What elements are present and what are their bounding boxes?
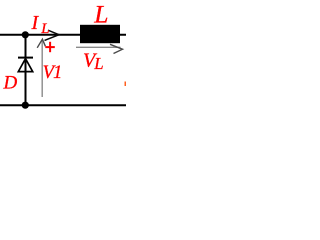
svg-text:1: 1	[53, 63, 62, 83]
inductor L body	[80, 25, 120, 43]
svg-text:D: D	[3, 73, 18, 94]
node top junction	[22, 31, 29, 38]
svg-text:L: L	[93, 0, 108, 28]
background	[0, 0, 126, 126]
clipped orange mark right edge	[125, 82, 127, 87]
current arrow I_L head	[45, 30, 60, 40]
label plus sign	[45, 46, 55, 48]
voltage arrow V1 shaft	[41, 41, 43, 98]
voltage arrow VL shaft	[76, 46, 121, 48]
wire top horizontal	[0, 34, 126, 36]
wire bottom horizontal	[0, 104, 126, 106]
wire vertical diode branch	[25, 35, 27, 105]
svg-text:L: L	[93, 54, 103, 73]
diode D triangle	[18, 59, 32, 72]
diode D cathode bar	[18, 57, 33, 59]
voltage arrow VL head	[110, 44, 123, 53]
svg-text:I: I	[31, 12, 40, 34]
node bottom junction	[22, 102, 29, 109]
svg-text:L: L	[40, 21, 49, 37]
voltage arrow V1 head	[37, 39, 45, 48]
